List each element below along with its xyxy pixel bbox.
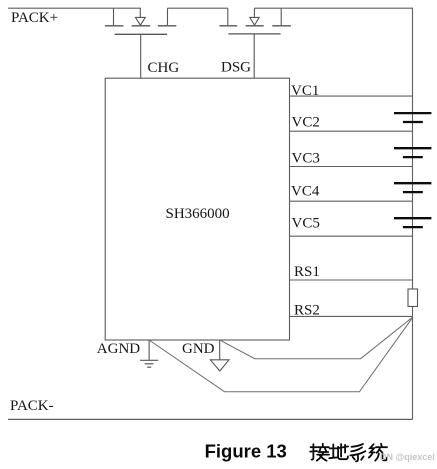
- wire VC1 line: [290, 95, 413, 97]
- svg-text:DSG: DSG: [221, 60, 251, 76]
- svg-text:PACK+: PACK+: [11, 10, 58, 26]
- transistor Q1 (CHG FET): [105, 8, 176, 78]
- Q1 gate bar: [115, 33, 168, 35]
- wire PACK- rail: [8, 418, 413, 420]
- svg-text:VC3: VC3: [292, 150, 320, 166]
- svg-text:VC5: VC5: [292, 216, 320, 232]
- svg-text:VC2: VC2: [292, 115, 320, 131]
- svg-text:AGND: AGND: [97, 341, 140, 357]
- ground AGND earth symbol: [140, 360, 158, 367]
- Q1 diode stem: [139, 8, 141, 17]
- wire VC2 line: [290, 130, 413, 132]
- hanzi 系: [350, 444, 365, 461]
- wire RS1 line: [290, 279, 413, 281]
- pin AGND wire: [148, 340, 150, 360]
- battery cell B3 plates: [394, 182, 431, 184]
- svg-text:VC1: VC1: [291, 83, 319, 99]
- IC U1 SH366000 box: [105, 78, 289, 340]
- Q1 contact bars: [105, 25, 124, 27]
- svg-text:CHG: CHG: [148, 60, 180, 76]
- Q2 gate wire to DSG pin: [253, 34, 255, 78]
- caption chinese 接地系统 (drawn strokes): [310, 444, 387, 462]
- battery cell B4 plates: [394, 217, 431, 219]
- Q2 diode stem: [253, 8, 255, 17]
- wire VC5 line: [290, 235, 413, 237]
- wire AGND diagonal to bus: [150, 317, 413, 392]
- hanzi 统: [369, 444, 387, 461]
- wire VC4 line: [290, 200, 413, 202]
- Q2 left stub: [227, 8, 229, 25]
- Q2 gate bar: [228, 33, 280, 35]
- Q2 body diode triangle: [250, 17, 259, 25]
- Q1 right stub: [167, 8, 169, 25]
- wire RS2 line: [290, 315, 414, 317]
- Q1 gate wire to CHG pin: [140, 34, 142, 78]
- svg-text:SH366000: SH366000: [166, 206, 230, 222]
- svg-text:DN @qiexcel: DN @qiexcel: [380, 452, 435, 462]
- transistor Q2 (DSG FET): [220, 8, 291, 78]
- pin GND wire: [219, 340, 221, 360]
- wire VC3 line: [290, 166, 413, 168]
- wire top rail segment B (Q1 to Q2): [168, 7, 228, 9]
- resistor R1 (sense resistor): [408, 289, 418, 307]
- hanzi 地: [329, 444, 348, 459]
- wire top rail segment A (PACK+ to Q1 diode stem): [8, 7, 141, 9]
- wire top rail segment C (Q2 to right rail corner): [254, 7, 413, 9]
- Q1 body diode triangle: [136, 17, 146, 25]
- battery cell B1 plates: [394, 112, 431, 114]
- wire right rail vertical: [412, 8, 414, 419]
- wire GND diagonal to bus: [221, 317, 413, 359]
- Q2 right stub: [280, 8, 282, 25]
- svg-text:RS1: RS1: [294, 264, 320, 280]
- Q2 contact bars: [220, 25, 238, 27]
- ground GND triangle symbol: [210, 360, 229, 371]
- svg-text:RS2: RS2: [294, 303, 320, 319]
- hanzi 接: [310, 444, 329, 461]
- Q1 left stub: [113, 8, 115, 25]
- svg-text:PACK-: PACK-: [10, 398, 54, 414]
- svg-text:VC4: VC4: [291, 183, 320, 199]
- svg-text:GND: GND: [182, 341, 215, 357]
- battery cell B2 plates: [394, 147, 431, 149]
- svg-text:Figure 13: Figure 13: [205, 440, 287, 461]
